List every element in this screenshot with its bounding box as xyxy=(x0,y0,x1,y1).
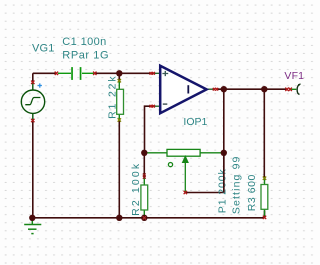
node: R2 bottom junction xyxy=(141,215,147,221)
wire: R2 column xyxy=(143,153,145,178)
svg-text:C1 100n: C1 100n xyxy=(62,36,106,48)
node: feedback junction xyxy=(141,150,147,156)
svg-text:IOP1: IOP1 xyxy=(183,116,207,128)
node: R1 top junction xyxy=(116,70,122,76)
pin cross mark at R2 bottom junction xyxy=(143,216,146,219)
wire: top horizontal net VG1->C1->R1->opamp +in xyxy=(32,73,286,218)
wire: output row xyxy=(217,88,287,90)
svg-text:R1 22k: R1 22k xyxy=(106,76,118,119)
wire: inverting input to feedback node xyxy=(145,106,155,153)
node: ground junction xyxy=(29,215,35,221)
VG1 plus polarity mark xyxy=(38,83,42,87)
node: R1 bottom junction xyxy=(116,215,122,221)
svg-text:VF1: VF1 xyxy=(284,70,304,82)
node: R3 top junction xyxy=(261,86,267,92)
node: output junction xyxy=(221,86,227,92)
wire: R3 column xyxy=(263,89,265,177)
pin cross marks (olive) xyxy=(118,79,267,180)
op-amp IOP1 pin stubs xyxy=(154,73,214,106)
wire: R1 column above body xyxy=(118,73,120,80)
wire: bottom ground rail xyxy=(32,217,264,219)
capacitor C1 xyxy=(58,67,94,80)
potentiometer P1 xyxy=(144,149,224,192)
svg-text:VG1: VG1 xyxy=(32,42,54,54)
output pin VF1 xyxy=(291,84,301,95)
node: pot right junction xyxy=(221,150,227,156)
svg-text:P1 200k: P1 200k xyxy=(217,168,229,213)
op-amp IOP1 xyxy=(160,66,206,114)
svg-text:R3 600: R3 600 xyxy=(246,175,258,212)
resistor R3 xyxy=(261,178,268,216)
resistor R1 xyxy=(117,80,124,121)
svg-text:RPar 1G: RPar 1G xyxy=(62,49,108,61)
resistor R2 xyxy=(141,178,148,218)
wire: VG1 vertical segments xyxy=(32,73,34,82)
ground xyxy=(24,218,41,234)
wire: output column down to wiper xyxy=(185,89,224,192)
pin cross marks at R2 top pin xyxy=(143,173,146,178)
wire: output column over P1 label xyxy=(223,153,225,193)
voltage generator VG1 xyxy=(21,82,44,121)
svg-text:Setting 99: Setting 99 xyxy=(230,156,242,214)
wire: R1 column below body xyxy=(118,121,120,218)
pin cross marks (red) xyxy=(31,72,292,220)
